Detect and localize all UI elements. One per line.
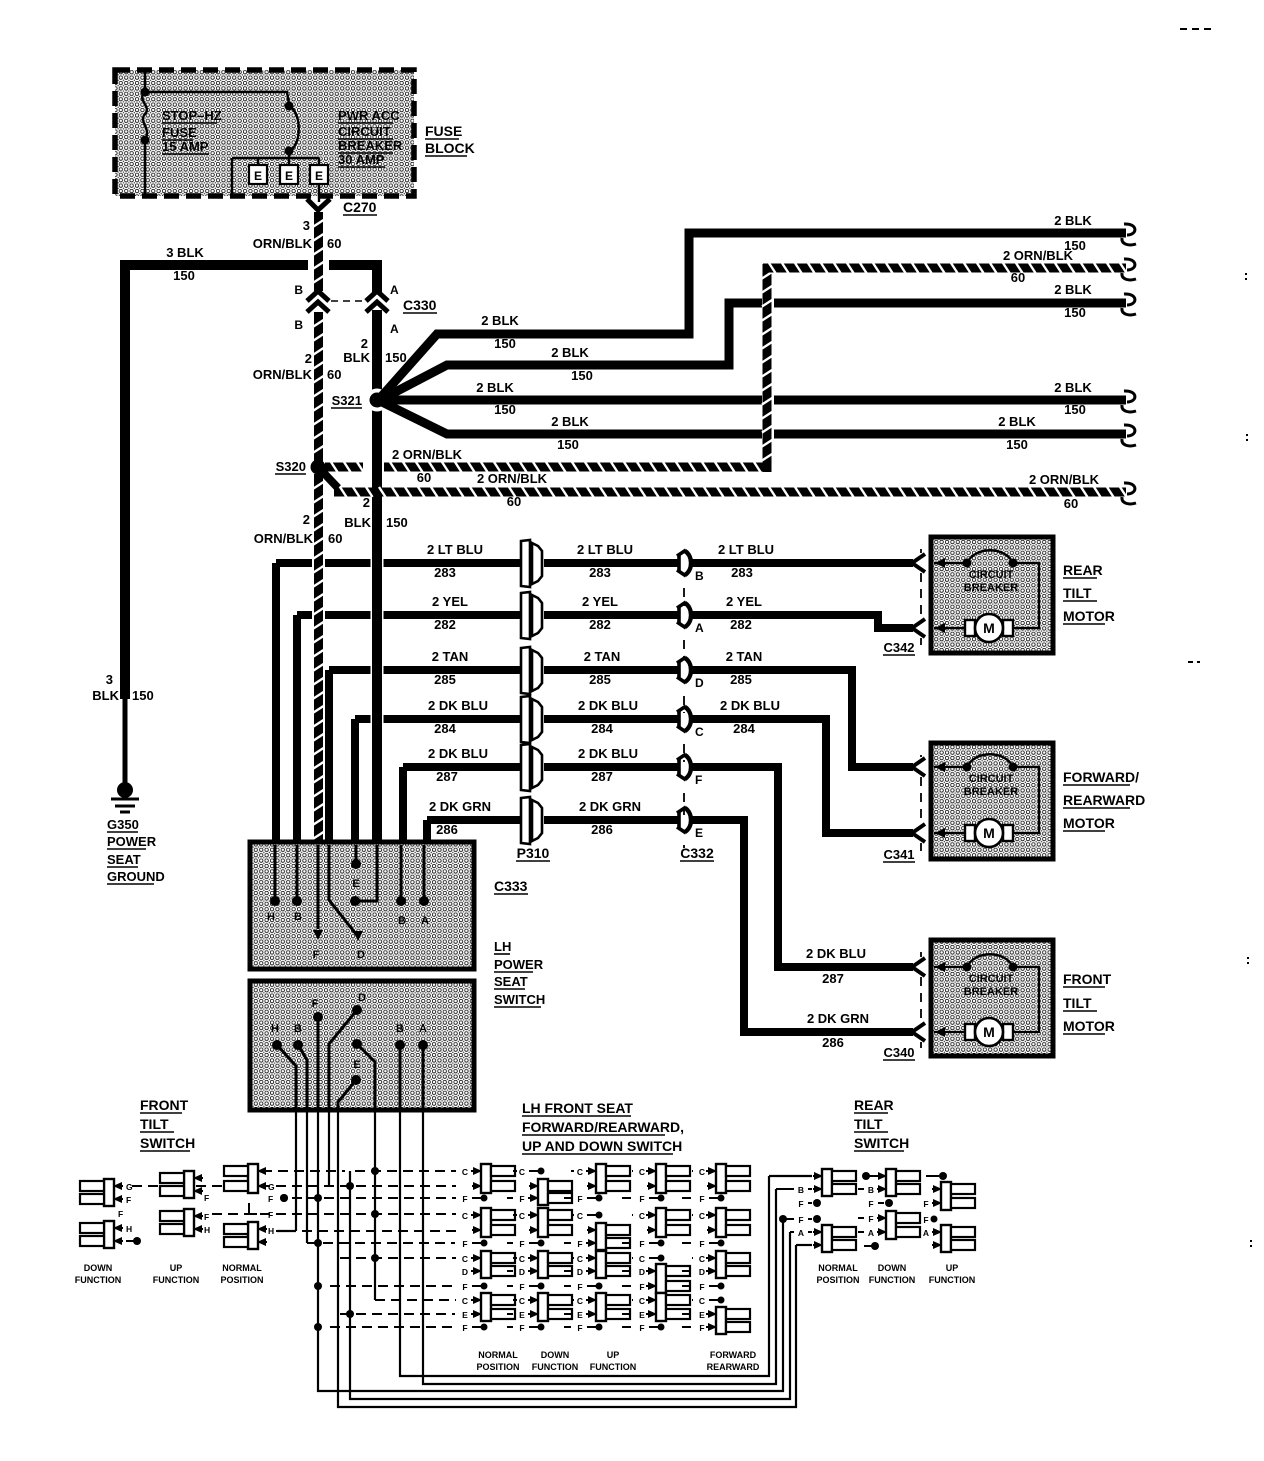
svg-text:B: B bbox=[294, 1023, 302, 1035]
svg-text:2: 2 bbox=[303, 512, 310, 527]
svg-text:C: C bbox=[639, 1211, 645, 1221]
svg-text:30 AMP: 30 AMP bbox=[338, 152, 385, 167]
svg-text:D: D bbox=[695, 676, 704, 690]
upper box pin H bbox=[267, 845, 280, 923]
svg-text:F: F bbox=[695, 773, 702, 787]
svg-text:C: C bbox=[462, 1254, 468, 1264]
svg-text:F: F bbox=[923, 1215, 928, 1225]
svg-text:282: 282 bbox=[730, 617, 752, 632]
label PWR ACC CIRCUIT BREAKER 30 AMP bbox=[338, 108, 403, 167]
svg-text:GROUND: GROUND bbox=[107, 869, 165, 884]
svg-text:C342: C342 bbox=[883, 640, 914, 655]
svg-text:C332: C332 bbox=[680, 845, 714, 861]
upper box pin from 2 BLK bbox=[350, 845, 377, 906]
svg-text:F: F bbox=[462, 1282, 467, 1292]
label FUSE BLOCK bbox=[425, 123, 475, 156]
connector P310 pin row 285 bbox=[521, 647, 542, 694]
labels 2 TAN 285 bbox=[432, 649, 763, 687]
svg-text:F: F bbox=[204, 1193, 209, 1203]
svg-text:A: A bbox=[390, 283, 399, 297]
svg-text:FRONT: FRONT bbox=[1063, 971, 1112, 987]
rear tilt motor bbox=[883, 537, 1115, 655]
svg-text:286: 286 bbox=[822, 1035, 844, 1050]
svg-text:D: D bbox=[577, 1267, 583, 1277]
svg-text:DOWN: DOWN bbox=[84, 1263, 113, 1273]
svg-text:C: C bbox=[519, 1167, 525, 1177]
wire 2 DK BLU 284 to C341 bbox=[691, 719, 913, 833]
svg-text:C: C bbox=[462, 1167, 468, 1177]
svg-text:C341: C341 bbox=[883, 847, 914, 862]
lh front seat switch connector grid bbox=[462, 1164, 750, 1334]
svg-text:D: D bbox=[519, 1267, 525, 1277]
svg-text:2 LT BLU: 2 LT BLU bbox=[427, 542, 483, 557]
svg-text:UP: UP bbox=[607, 1350, 620, 1360]
svg-text:F: F bbox=[462, 1194, 467, 1204]
svg-text:2 ORN/BLK: 2 ORN/BLK bbox=[1003, 248, 1074, 263]
svg-text:C: C bbox=[519, 1211, 525, 1221]
svg-text:UP: UP bbox=[170, 1263, 183, 1273]
svg-text:A: A bbox=[419, 1023, 427, 1035]
wire drop A return bbox=[423, 1110, 776, 1384]
svg-text:2 YEL: 2 YEL bbox=[432, 594, 468, 609]
svg-text:B: B bbox=[294, 283, 303, 297]
svg-text:FUNCTION: FUNCTION bbox=[75, 1275, 122, 1285]
labels 2 DK BLU 287 bbox=[428, 746, 638, 784]
svg-text:60: 60 bbox=[327, 367, 341, 382]
svg-text:150: 150 bbox=[173, 268, 195, 283]
svg-text:A: A bbox=[868, 1228, 874, 1238]
svg-text:MOTOR: MOTOR bbox=[1063, 1018, 1115, 1034]
wire 2 DK BLU 287 row bbox=[403, 767, 679, 844]
svg-text:F: F bbox=[798, 1199, 803, 1209]
mesh row r4c bbox=[375, 1299, 456, 1301]
svg-text:C333: C333 bbox=[494, 878, 528, 894]
svg-text:2 YEL: 2 YEL bbox=[582, 594, 618, 609]
labels 2 DK BLU 284 bbox=[428, 698, 780, 736]
svg-text:2 ORN/BLK: 2 ORN/BLK bbox=[1029, 472, 1100, 487]
svg-text:SEAT: SEAT bbox=[107, 852, 141, 867]
wire 3 BLK 150 horizontal bbox=[120, 245, 377, 294]
svg-text:F: F bbox=[577, 1323, 582, 1333]
mesh row r3f bbox=[330, 1285, 455, 1287]
wire 2 BLK 150 fan 3 bbox=[384, 380, 1126, 417]
svg-text:STOP–HZ: STOP–HZ bbox=[162, 108, 222, 123]
svg-text:FUSE: FUSE bbox=[162, 125, 197, 140]
svg-text:SEAT: SEAT bbox=[494, 974, 528, 989]
svg-text:C: C bbox=[577, 1211, 583, 1221]
svg-text:2 DK BLU: 2 DK BLU bbox=[806, 946, 866, 961]
svg-text:F: F bbox=[639, 1194, 644, 1204]
svg-text:BLOCK: BLOCK bbox=[425, 140, 475, 156]
rear tilt switch down function connectors bbox=[858, 1169, 920, 1285]
svg-text:E: E bbox=[315, 169, 323, 183]
connector C332 pin F bbox=[677, 754, 702, 787]
svg-text:F: F bbox=[519, 1239, 524, 1249]
upper box pin F bbox=[313, 845, 323, 961]
rear tilt switch normal position connectors bbox=[769, 1169, 860, 1285]
forward rearward motor bbox=[883, 743, 1145, 862]
svg-text:2 BLK: 2 BLK bbox=[998, 414, 1036, 429]
upper box pin B2 bbox=[396, 845, 406, 927]
svg-text:C: C bbox=[519, 1296, 525, 1306]
svg-text:B: B bbox=[294, 911, 302, 923]
svg-text:F: F bbox=[126, 1195, 131, 1205]
label C333 bbox=[494, 878, 528, 894]
svg-text:C: C bbox=[577, 1254, 583, 1264]
svg-text:F: F bbox=[699, 1282, 704, 1292]
wire 2 YEL 282 row bbox=[297, 615, 679, 844]
connector C332 pin E bbox=[677, 807, 703, 840]
svg-text:2 DK GRN: 2 DK GRN bbox=[579, 799, 641, 814]
exit hook 2 ORN/BLK 60 lower bbox=[1029, 472, 1136, 511]
terminal E2 bbox=[280, 165, 298, 184]
svg-text:2 BLK: 2 BLK bbox=[1054, 282, 1092, 297]
svg-text:P310: P310 bbox=[517, 845, 550, 861]
svg-text:C: C bbox=[577, 1296, 583, 1306]
svg-text:C: C bbox=[639, 1296, 645, 1306]
svg-text:D: D bbox=[358, 992, 366, 1004]
svg-text:TILT: TILT bbox=[1063, 995, 1092, 1011]
wire drop D bbox=[328, 1110, 330, 1186]
svg-text:2 YEL: 2 YEL bbox=[726, 594, 762, 609]
scan artifact marks bbox=[1180, 29, 1251, 1248]
svg-text:SWITCH: SWITCH bbox=[140, 1135, 195, 1151]
svg-text:60: 60 bbox=[417, 470, 431, 485]
svg-text:REARWARD: REARWARD bbox=[1063, 792, 1145, 808]
svg-text:2 BLK: 2 BLK bbox=[551, 345, 589, 360]
connector C332 pin B bbox=[677, 550, 704, 583]
svg-text:BLK: BLK bbox=[343, 350, 370, 365]
svg-text:F: F bbox=[118, 1209, 123, 1219]
svg-text:SWITCH: SWITCH bbox=[854, 1135, 909, 1151]
terminal E3 bbox=[310, 165, 328, 202]
svg-text:283: 283 bbox=[434, 565, 456, 580]
wire 2 DK BLU 287 to C340 bbox=[691, 767, 913, 986]
mesh row normal-1 bbox=[262, 1170, 456, 1172]
svg-text:150: 150 bbox=[386, 515, 408, 530]
wire drop E bbox=[338, 1110, 796, 1407]
front tilt switch up function connectors bbox=[153, 1171, 210, 1285]
svg-text:CIRCUIT: CIRCUIT bbox=[969, 569, 1014, 581]
connector C332 pin C bbox=[677, 706, 704, 739]
label LH POWER SEAT SWITCH bbox=[494, 939, 545, 1007]
svg-text:BLK: BLK bbox=[344, 515, 371, 530]
svg-text:F: F bbox=[639, 1282, 644, 1292]
wire 2 LT BLU 283 to C342 bbox=[691, 559, 913, 567]
svg-text:B: B bbox=[798, 1185, 804, 1195]
svg-text:M: M bbox=[983, 825, 995, 841]
svg-text:FUNCTION: FUNCTION bbox=[532, 1362, 579, 1372]
label C332 bbox=[680, 845, 714, 861]
svg-text:2 DK GRN: 2 DK GRN bbox=[429, 799, 491, 814]
wire 2 ORN/BLK 60 from S320 to riser bbox=[325, 447, 763, 485]
svg-text:F: F bbox=[798, 1215, 803, 1225]
connector P310 pin row 283 bbox=[521, 540, 542, 587]
label P310 bbox=[516, 845, 550, 861]
wire 3 ORN/BLK 60 vertical bbox=[253, 212, 342, 291]
svg-text:DOWN: DOWN bbox=[541, 1350, 570, 1360]
svg-text:2 BLK: 2 BLK bbox=[481, 313, 519, 328]
svg-text:C: C bbox=[699, 1254, 705, 1264]
fuse STOP-HZ 15 AMP bbox=[141, 72, 150, 194]
svg-text:UP: UP bbox=[946, 1263, 959, 1273]
svg-text:B: B bbox=[396, 1023, 404, 1035]
svg-text:G350: G350 bbox=[107, 817, 139, 832]
svg-text:E: E bbox=[639, 1310, 645, 1320]
svg-text:B: B bbox=[294, 318, 303, 332]
svg-text:A: A bbox=[421, 915, 429, 927]
upper box pin B bbox=[292, 845, 302, 923]
svg-text:F: F bbox=[519, 1323, 524, 1333]
svg-text:FUNCTION: FUNCTION bbox=[869, 1275, 916, 1285]
svg-text:A: A bbox=[695, 621, 704, 635]
connector C332 dashed line bbox=[683, 588, 685, 848]
svg-text:2 DK BLU: 2 DK BLU bbox=[428, 746, 488, 761]
svg-text:NORMAL: NORMAL bbox=[478, 1350, 518, 1360]
svg-text:BREAKER: BREAKER bbox=[964, 986, 1018, 998]
svg-text:LH: LH bbox=[494, 939, 511, 954]
svg-text:2: 2 bbox=[363, 495, 370, 510]
labels 2 YEL 282 bbox=[432, 594, 762, 632]
svg-text:MOTOR: MOTOR bbox=[1063, 815, 1115, 831]
svg-text:F: F bbox=[312, 998, 319, 1010]
svg-text:F: F bbox=[462, 1323, 467, 1333]
svg-text:287: 287 bbox=[436, 769, 458, 784]
front tilt switch normal position connectors bbox=[220, 1164, 288, 1285]
wire fuse to breaker bbox=[145, 92, 289, 104]
svg-text:C: C bbox=[577, 1167, 583, 1177]
svg-text:2 BLK: 2 BLK bbox=[1054, 213, 1092, 228]
wire 2 TAN 285 row bbox=[329, 670, 679, 844]
connector C332 pin A bbox=[677, 602, 704, 635]
wire 3 BLK 150 left vertical bbox=[92, 260, 153, 786]
svg-text:B: B bbox=[398, 915, 406, 927]
svg-text:2 TAN: 2 TAN bbox=[726, 649, 763, 664]
wire 2 ORN/BLK 60 below C330 bbox=[253, 312, 342, 462]
lh front seat switch row dashes bbox=[507, 1171, 693, 1327]
upper box pin D bbox=[329, 845, 365, 961]
mesh row G bbox=[132, 1185, 456, 1187]
svg-text:A: A bbox=[390, 322, 399, 336]
svg-text:H: H bbox=[268, 1226, 274, 1236]
wire drop F bus bbox=[314, 1110, 787, 1391]
svg-text:FUNCTION: FUNCTION bbox=[153, 1275, 200, 1285]
terminal E1 bbox=[249, 165, 267, 184]
svg-text:150: 150 bbox=[1064, 305, 1086, 320]
wire 2 TAN 285 to C341 bbox=[691, 670, 913, 767]
svg-text:286: 286 bbox=[591, 822, 613, 837]
svg-text:REAR: REAR bbox=[1063, 562, 1103, 578]
svg-text:F: F bbox=[639, 1239, 644, 1249]
svg-text:287: 287 bbox=[591, 769, 613, 784]
wire mesh branch to A row bbox=[346, 1171, 790, 1399]
svg-text:ORN/BLK: ORN/BLK bbox=[254, 531, 314, 546]
svg-text:E: E bbox=[353, 1059, 360, 1071]
svg-text:PWR ACC: PWR ACC bbox=[338, 108, 400, 123]
svg-text:F: F bbox=[577, 1282, 582, 1292]
splice S320 bbox=[275, 459, 326, 475]
splice S321 bbox=[331, 389, 389, 412]
svg-text:285: 285 bbox=[434, 672, 456, 687]
exit hook 2 BLK 150 third bbox=[1054, 380, 1136, 417]
svg-text:2 ORN/BLK: 2 ORN/BLK bbox=[477, 471, 548, 486]
labels 2 DK GRN 286 bbox=[429, 799, 641, 837]
svg-text:F: F bbox=[868, 1214, 873, 1224]
rear tilt switch up function connectors bbox=[923, 1172, 975, 1285]
svg-text:FUNCTION: FUNCTION bbox=[590, 1362, 637, 1372]
svg-text:F: F bbox=[268, 1194, 273, 1204]
svg-text:60: 60 bbox=[1064, 496, 1078, 511]
svg-text:284: 284 bbox=[434, 721, 456, 736]
svg-text:DOWN: DOWN bbox=[878, 1263, 907, 1273]
svg-text:E: E bbox=[285, 169, 293, 183]
svg-text:F: F bbox=[699, 1323, 704, 1333]
svg-text:NORMAL: NORMAL bbox=[222, 1263, 262, 1273]
LH power seat switch upper box C333 bbox=[250, 842, 474, 969]
svg-text:TILT: TILT bbox=[854, 1116, 883, 1132]
upper box pin E bbox=[351, 845, 361, 890]
svg-text:M: M bbox=[983, 620, 995, 636]
lower box pin B2 bbox=[395, 1023, 405, 1110]
svg-text:150: 150 bbox=[494, 402, 516, 417]
svg-text:C: C bbox=[639, 1254, 645, 1264]
lower box pin A bbox=[418, 1023, 428, 1110]
svg-text:2 TAN: 2 TAN bbox=[432, 649, 469, 664]
svg-text:150: 150 bbox=[1064, 402, 1086, 417]
svg-text:BLK: BLK bbox=[92, 688, 119, 703]
svg-text:H: H bbox=[126, 1224, 132, 1234]
svg-text:F: F bbox=[699, 1194, 704, 1204]
lh front seat switch column labels bbox=[476, 1350, 759, 1372]
svg-text:F: F bbox=[313, 949, 320, 961]
svg-text:D: D bbox=[357, 949, 365, 961]
svg-text:284: 284 bbox=[591, 721, 613, 736]
svg-text:285: 285 bbox=[730, 672, 752, 687]
svg-text:285: 285 bbox=[589, 672, 611, 687]
exit hook 2 BLK 150 top bbox=[1054, 213, 1136, 253]
svg-text:S320: S320 bbox=[276, 459, 306, 474]
svg-text:C: C bbox=[695, 725, 704, 739]
svg-text:BREAKER: BREAKER bbox=[964, 786, 1018, 798]
svg-text:BREAKER: BREAKER bbox=[964, 582, 1018, 594]
wire 2 BLK 150 fan 1 bbox=[381, 233, 1126, 397]
svg-text:FUNCTION: FUNCTION bbox=[929, 1275, 976, 1285]
svg-text:CIRCUIT: CIRCUIT bbox=[969, 973, 1014, 985]
lower box pin F bbox=[312, 998, 323, 1110]
wire 2 BLK 150 fan 4 bbox=[382, 402, 1126, 452]
front tilt switch down function connectors bbox=[75, 1179, 141, 1285]
svg-text:2 DK BLU: 2 DK BLU bbox=[578, 698, 638, 713]
svg-text:60: 60 bbox=[507, 494, 521, 509]
svg-text:2 ORN/BLK: 2 ORN/BLK bbox=[392, 447, 463, 462]
svg-text:POSITION: POSITION bbox=[476, 1362, 519, 1372]
fuse block outline bbox=[115, 70, 414, 196]
svg-text:E: E bbox=[695, 826, 703, 840]
svg-text:150: 150 bbox=[385, 350, 407, 365]
front tilt motor bbox=[883, 940, 1115, 1060]
svg-text:C: C bbox=[462, 1211, 468, 1221]
svg-text:150: 150 bbox=[571, 368, 593, 383]
svg-text:POWER: POWER bbox=[107, 834, 157, 849]
svg-text:150: 150 bbox=[132, 688, 154, 703]
svg-text:ORN/BLK: ORN/BLK bbox=[253, 367, 313, 382]
svg-text:C330: C330 bbox=[403, 297, 437, 313]
label REAR TILT SWITCH bbox=[854, 1097, 909, 1151]
svg-text:A: A bbox=[798, 1228, 804, 1238]
mesh row F2 bbox=[212, 1213, 456, 1215]
svg-text:C: C bbox=[519, 1254, 525, 1264]
lower box pin B bbox=[293, 1023, 307, 1110]
svg-text:TILT: TILT bbox=[140, 1116, 169, 1132]
svg-text:CIRCUIT: CIRCUIT bbox=[969, 773, 1014, 785]
svg-text:POSITION: POSITION bbox=[220, 1275, 263, 1285]
wire 2 BLK 150 vertical bbox=[343, 310, 406, 842]
svg-text:2 BLK: 2 BLK bbox=[551, 414, 589, 429]
label FRONT TILT SWITCH bbox=[140, 1097, 195, 1151]
svg-text:F: F bbox=[462, 1239, 467, 1249]
svg-text:150: 150 bbox=[494, 336, 516, 351]
svg-text:60: 60 bbox=[327, 236, 341, 251]
svg-text:SWITCH: SWITCH bbox=[494, 992, 545, 1007]
svg-text:F: F bbox=[699, 1239, 704, 1249]
svg-text:CIRCUIT: CIRCUIT bbox=[338, 124, 391, 139]
svg-text:2 TAN: 2 TAN bbox=[584, 649, 621, 664]
svg-text:2 BLK: 2 BLK bbox=[476, 380, 514, 395]
svg-text:FORWARD: FORWARD bbox=[710, 1350, 757, 1360]
svg-text:3: 3 bbox=[106, 672, 113, 687]
wire 2 DK GRN 286 to C340 bbox=[691, 820, 913, 1050]
svg-text:2 BLK: 2 BLK bbox=[1054, 380, 1092, 395]
svg-text:M: M bbox=[983, 1024, 995, 1040]
svg-text:2 LT BLU: 2 LT BLU bbox=[718, 542, 774, 557]
svg-text:H: H bbox=[271, 1023, 279, 1035]
svg-text:D: D bbox=[699, 1267, 705, 1277]
lower box pin H bbox=[271, 1023, 296, 1110]
svg-text:2 DK GRN: 2 DK GRN bbox=[807, 1011, 869, 1026]
connector P310 pin row 282 bbox=[521, 592, 542, 639]
svg-text:C270: C270 bbox=[343, 199, 377, 215]
svg-text:3 BLK: 3 BLK bbox=[166, 245, 204, 260]
svg-text:C: C bbox=[699, 1167, 705, 1177]
svg-text:F: F bbox=[923, 1199, 928, 1209]
svg-text:POWER: POWER bbox=[494, 957, 544, 972]
svg-text:FORWARD/REARWARD,: FORWARD/REARWARD, bbox=[522, 1119, 684, 1135]
svg-text:D: D bbox=[639, 1267, 645, 1277]
mesh row r4f bbox=[330, 1326, 455, 1328]
lower box pin E bbox=[338, 1059, 361, 1110]
svg-text:POSITION: POSITION bbox=[816, 1275, 859, 1285]
svg-text:287: 287 bbox=[822, 971, 844, 986]
svg-text:G: G bbox=[268, 1182, 275, 1192]
svg-text:REAR: REAR bbox=[854, 1097, 894, 1113]
svg-text:E: E bbox=[699, 1310, 705, 1320]
svg-text:C: C bbox=[699, 1211, 705, 1221]
wire 2 BLK 150 fan 2 bbox=[382, 303, 1126, 399]
svg-text:2 DK BLU: 2 DK BLU bbox=[578, 746, 638, 761]
svg-text:2 LT BLU: 2 LT BLU bbox=[577, 542, 633, 557]
svg-text:F: F bbox=[519, 1282, 524, 1292]
connector P310 pin row 286 bbox=[521, 797, 542, 844]
svg-text:2: 2 bbox=[361, 336, 368, 351]
svg-text:F: F bbox=[639, 1323, 644, 1333]
svg-text:F: F bbox=[577, 1239, 582, 1249]
wire drop H to front tilt normal bbox=[295, 1110, 297, 1231]
svg-text:2 DK BLU: 2 DK BLU bbox=[428, 698, 488, 713]
wire 2 ORN/BLK riser and top run bbox=[762, 263, 1127, 472]
svg-text:MOTOR: MOTOR bbox=[1063, 608, 1115, 624]
svg-text:A: A bbox=[923, 1228, 929, 1238]
svg-text:UP AND DOWN SWITCH: UP AND DOWN SWITCH bbox=[522, 1138, 682, 1154]
